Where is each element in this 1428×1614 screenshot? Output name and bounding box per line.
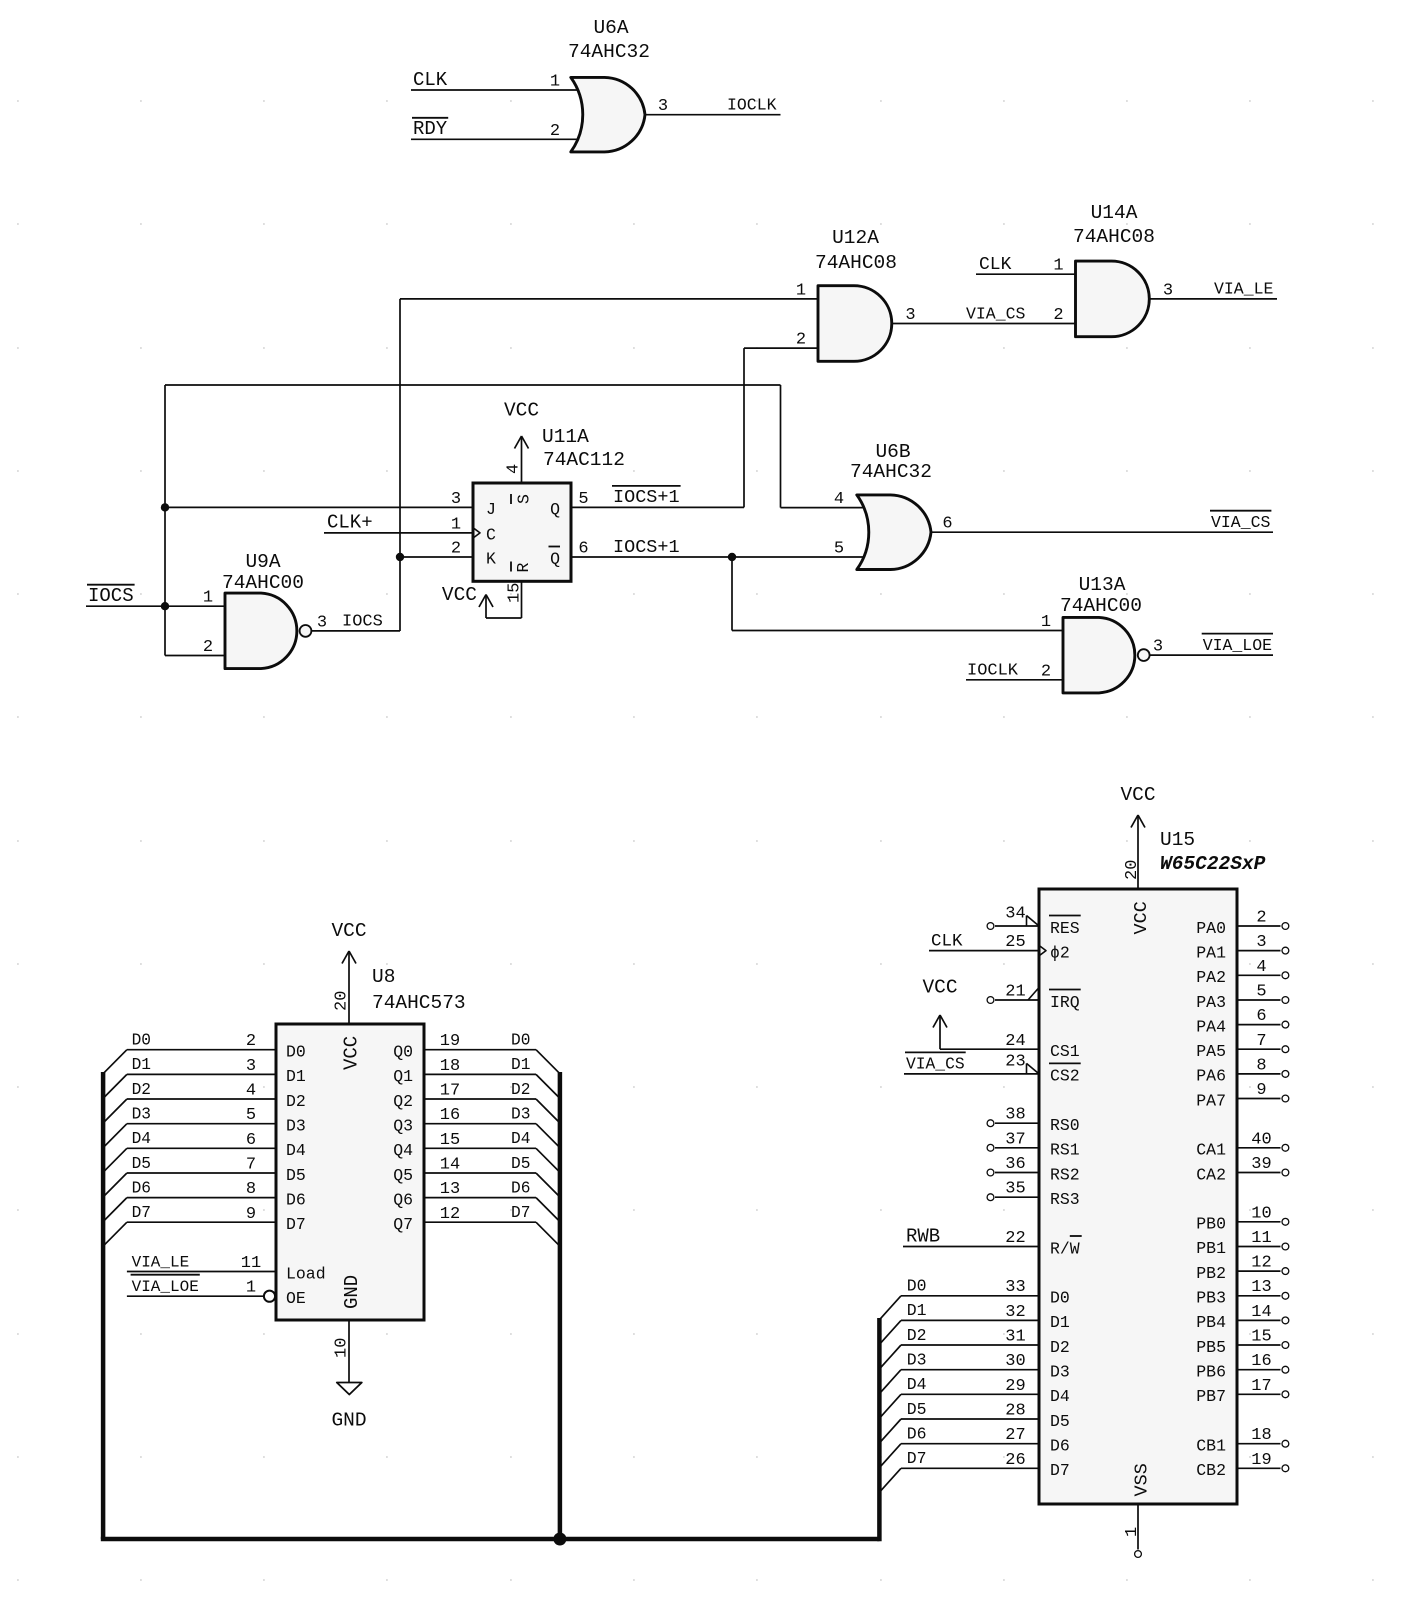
svg-text:CB2: CB2 xyxy=(1196,1461,1226,1480)
svg-text:20: 20 xyxy=(1123,860,1142,880)
svg-text:23: 23 xyxy=(1005,1052,1025,1071)
svg-text:GND: GND xyxy=(331,1410,366,1432)
wire U6A pin 3 to IOCLK xyxy=(646,114,781,116)
svg-text:7: 7 xyxy=(246,1156,256,1175)
svg-text:74AHC08: 74AHC08 xyxy=(815,252,897,274)
pin end circle PB6 xyxy=(1282,1366,1289,1373)
svg-text:22: 22 xyxy=(1005,1229,1025,1248)
wire D4 to U8 pin 6 xyxy=(127,1147,276,1149)
svg-text:CLK: CLK xyxy=(413,69,448,91)
svg-text:18: 18 xyxy=(440,1057,460,1076)
pin end circle CB1 xyxy=(1282,1440,1289,1447)
wire D5 to U8 pin 7 xyxy=(127,1172,276,1174)
svg-text:D0: D0 xyxy=(907,1277,927,1296)
svg-text:PA1: PA1 xyxy=(1196,943,1226,962)
svg-text:IOCS+1: IOCS+1 xyxy=(613,537,680,558)
svg-text:8: 8 xyxy=(1256,1056,1266,1075)
svg-text:PB5: PB5 xyxy=(1196,1338,1226,1357)
svg-text:19: 19 xyxy=(1251,1451,1271,1470)
svg-text:PB2: PB2 xyxy=(1196,1264,1226,1283)
svg-text:PB7: PB7 xyxy=(1196,1387,1226,1406)
svg-text:2: 2 xyxy=(246,1032,256,1051)
svg-text:D7: D7 xyxy=(286,1215,306,1234)
and-gate U14A 74AHC08 xyxy=(1053,202,1173,337)
wire vertical pin2 to Q xyxy=(743,348,745,507)
svg-text:6: 6 xyxy=(942,515,952,534)
wire PA0 stub xyxy=(1237,925,1281,927)
svg-text:74AHC32: 74AHC32 xyxy=(568,41,650,63)
pin end circle PB3 xyxy=(1282,1292,1289,1299)
svg-text:2: 2 xyxy=(550,122,560,141)
svg-text:D0: D0 xyxy=(511,1032,530,1050)
pin end circle PB7 xyxy=(1282,1391,1289,1398)
svg-text:Q6: Q6 xyxy=(393,1190,413,1209)
svg-text:PB3: PB3 xyxy=(1196,1289,1226,1308)
wire CB1 stub xyxy=(1237,1443,1281,1445)
wire U12A pin 2 stub xyxy=(744,347,818,349)
svg-text:12: 12 xyxy=(440,1205,460,1224)
svg-text:VCC: VCC xyxy=(442,584,477,606)
svg-text:6: 6 xyxy=(246,1131,256,1150)
pin end circle 36 xyxy=(987,1169,994,1176)
svg-text:IOCLK: IOCLK xyxy=(727,96,777,115)
wire U12A pin 1 net xyxy=(400,298,818,300)
bus entry D5 xyxy=(879,1419,901,1443)
bus entry D1 right xyxy=(536,1074,560,1098)
svg-text:74AC112: 74AC112 xyxy=(543,449,625,471)
svg-text:CA1: CA1 xyxy=(1196,1141,1226,1160)
power GND at U8 pin 10 xyxy=(331,1320,366,1432)
pin end circle PB4 xyxy=(1282,1317,1289,1324)
pin end circle PA2 xyxy=(1282,972,1289,979)
svg-text:5: 5 xyxy=(1256,983,1266,1002)
svg-text:VIA_LE: VIA_LE xyxy=(132,1253,190,1271)
svg-text:18: 18 xyxy=(1251,1426,1271,1445)
svg-text:RS3: RS3 xyxy=(1050,1190,1080,1209)
svg-text:3: 3 xyxy=(1153,638,1163,657)
power VCC at U15 pin 20 xyxy=(1120,784,1155,889)
wire J pin net xyxy=(165,506,473,508)
wire IOCS-bar vertical trunk xyxy=(164,385,166,656)
power VCC at U8 pin 20 xyxy=(331,920,366,1024)
svg-text:35: 35 xyxy=(1005,1180,1025,1199)
svg-text:RWB: RWB xyxy=(906,1225,940,1247)
svg-text:D2: D2 xyxy=(511,1081,530,1099)
wire PB3 stub xyxy=(1237,1295,1281,1297)
svg-text:3: 3 xyxy=(658,97,668,116)
svg-text:11: 11 xyxy=(241,1254,261,1273)
svg-text:U9A: U9A xyxy=(245,551,280,573)
svg-text:D4: D4 xyxy=(1050,1387,1070,1406)
svg-text:PB4: PB4 xyxy=(1196,1313,1226,1332)
junction IOCS-bar xyxy=(161,602,169,610)
svg-text:3: 3 xyxy=(1256,933,1266,952)
wire PB1 stub xyxy=(1237,1246,1281,1248)
wire PA4 stub xyxy=(1237,1024,1281,1026)
wire D0 to pin 33 xyxy=(901,1295,1039,1297)
wire D5 to pin 28 xyxy=(901,1418,1039,1420)
svg-text:D5: D5 xyxy=(132,1155,151,1173)
wire PB6 stub xyxy=(1237,1369,1281,1371)
svg-text:VIA_CS: VIA_CS xyxy=(1211,513,1271,532)
wire to U13A pin 1 xyxy=(732,630,1063,632)
bus junction xyxy=(553,1533,566,1546)
svg-text:4: 4 xyxy=(834,490,844,509)
wire U6B pin 6 to VIA_CS-bar xyxy=(932,531,1274,533)
svg-text:U11A: U11A xyxy=(542,426,589,448)
wire PB5 stub xyxy=(1237,1344,1281,1346)
bus entry D0 right xyxy=(536,1050,560,1074)
svg-text:15: 15 xyxy=(440,1131,460,1150)
junction on K line xyxy=(396,553,404,561)
svg-text:K: K xyxy=(486,550,496,569)
wire D3 to pin 30 xyxy=(901,1369,1039,1371)
wire D0 to U8 pin 2 xyxy=(127,1049,276,1051)
power VCC at U11A pin 4 xyxy=(504,400,539,484)
svg-text:U6A: U6A xyxy=(593,17,628,39)
svg-text:PB1: PB1 xyxy=(1196,1239,1226,1258)
svg-text:VIA_LE: VIA_LE xyxy=(1214,280,1274,299)
svg-text:PA5: PA5 xyxy=(1196,1042,1226,1061)
svg-text:Q: Q xyxy=(550,550,560,569)
svg-text:VIA_CS: VIA_CS xyxy=(966,304,1026,323)
svg-text:D5: D5 xyxy=(907,1400,927,1419)
svg-text:74AHC00: 74AHC00 xyxy=(1060,595,1142,617)
svg-text:D7: D7 xyxy=(511,1204,530,1222)
pin end circle PA0 xyxy=(1282,923,1289,930)
svg-text:14: 14 xyxy=(1251,1303,1271,1322)
wire PA3 stub xyxy=(1237,999,1281,1001)
wire RS3 stub xyxy=(995,1196,1039,1198)
wire vertical branch to U6B pin 4 xyxy=(780,385,782,508)
svg-text:GND: GND xyxy=(341,1275,363,1309)
pin end circle PB5 xyxy=(1282,1342,1289,1349)
svg-text:PA7: PA7 xyxy=(1196,1091,1226,1110)
input-low wedge RES xyxy=(1026,916,1028,927)
svg-text:R/W: R/W xyxy=(1050,1239,1080,1258)
or-gate U6B 74AHC32 xyxy=(834,441,953,570)
svg-text:74AHC08: 74AHC08 xyxy=(1073,226,1155,248)
svg-text:D2: D2 xyxy=(1050,1338,1070,1357)
wire PB7 stub xyxy=(1237,1393,1281,1395)
wire horizontal to U6B branch xyxy=(165,384,781,386)
svg-text:IOCS+1: IOCS+1 xyxy=(613,487,680,508)
wire D6 to pin 27 xyxy=(901,1443,1039,1445)
bus entry D5 left xyxy=(103,1173,127,1197)
wire VIA_LE to U8 pin 11 xyxy=(127,1271,276,1273)
wire RWB to pin 22 xyxy=(903,1246,1039,1248)
junction on J line xyxy=(161,503,169,511)
svg-text:CA2: CA2 xyxy=(1196,1165,1226,1184)
nand-gate U9A 74AHC00 xyxy=(203,551,327,669)
svg-text:19: 19 xyxy=(440,1032,460,1051)
wire CA2 stub xyxy=(1237,1172,1281,1174)
svg-text:2: 2 xyxy=(796,331,806,350)
svg-text:D2: D2 xyxy=(286,1092,306,1111)
wire to U9A pin 1 xyxy=(165,605,225,607)
svg-text:1: 1 xyxy=(203,589,213,608)
bus entry D3 right xyxy=(536,1124,560,1148)
svg-text:S: S xyxy=(515,494,534,504)
bus entry D3 xyxy=(879,1370,901,1394)
svg-text:VIA_LOE: VIA_LOE xyxy=(1203,636,1272,655)
pin end circle 37 xyxy=(987,1144,994,1151)
svg-text:D3: D3 xyxy=(1050,1363,1070,1382)
svg-text:3: 3 xyxy=(1163,281,1173,300)
svg-text:12: 12 xyxy=(1251,1254,1271,1273)
svg-text:4: 4 xyxy=(1256,958,1266,977)
svg-text:D5: D5 xyxy=(511,1155,530,1173)
svg-text:D7: D7 xyxy=(907,1449,927,1468)
svg-text:40: 40 xyxy=(1251,1130,1271,1149)
svg-text:74AHC573: 74AHC573 xyxy=(372,992,466,1014)
svg-text:9: 9 xyxy=(1256,1081,1266,1100)
svg-text:D6: D6 xyxy=(511,1179,530,1197)
svg-text:3: 3 xyxy=(246,1057,256,1076)
bus entry D2 right xyxy=(536,1099,560,1123)
svg-text:38: 38 xyxy=(1005,1106,1025,1125)
pin end circle PA3 xyxy=(1282,997,1289,1004)
svg-text:11: 11 xyxy=(1251,1229,1271,1248)
svg-text:D6: D6 xyxy=(907,1425,927,1444)
svg-text:D1: D1 xyxy=(132,1056,151,1074)
wire pin 34 stub xyxy=(995,925,1039,927)
svg-text:VIA_CS: VIA_CS xyxy=(906,1055,965,1074)
wire PA5 stub xyxy=(1237,1048,1281,1050)
svg-text:8: 8 xyxy=(246,1180,256,1199)
svg-text:7: 7 xyxy=(1256,1032,1266,1051)
svg-text:25: 25 xyxy=(1005,933,1025,952)
wire D4 to pin 29 xyxy=(901,1393,1039,1395)
svg-text:1: 1 xyxy=(796,281,806,300)
wire D3 to U8 pin 5 xyxy=(127,1123,276,1125)
wire CLK to U6A pin 1 xyxy=(411,89,580,91)
svg-text:32: 32 xyxy=(1005,1303,1025,1322)
pin end circle PA1 xyxy=(1282,947,1289,954)
output bubble xyxy=(1138,649,1150,661)
bus entry D4 right xyxy=(536,1148,560,1172)
svg-text:21: 21 xyxy=(1005,983,1025,1002)
svg-text:2: 2 xyxy=(1041,662,1051,681)
bus entry D4 left xyxy=(103,1148,127,1172)
or-gate U6A 74AHC32 xyxy=(550,17,668,152)
svg-text:Load: Load xyxy=(286,1264,326,1283)
svg-text:3: 3 xyxy=(451,490,461,509)
pin end circle PA7 xyxy=(1282,1095,1289,1102)
svg-text:D4: D4 xyxy=(907,1375,927,1394)
pin end circle PA6 xyxy=(1282,1071,1289,1078)
wire U13A pin 3 to VIA_LOE xyxy=(1150,654,1274,656)
pin end circle CA2 xyxy=(1282,1169,1289,1176)
svg-text:VCC: VCC xyxy=(504,400,539,422)
svg-text:5: 5 xyxy=(834,539,844,558)
svg-text:15: 15 xyxy=(1251,1328,1271,1347)
svg-text:D2: D2 xyxy=(907,1326,927,1345)
wire Q to U12A pin 2 branch xyxy=(571,506,744,508)
wire vertical to U13A pin 1 xyxy=(731,557,733,631)
wire to U9A pin 2 xyxy=(165,655,225,657)
svg-text:27: 27 xyxy=(1005,1426,1025,1445)
svg-text:1: 1 xyxy=(1053,257,1063,276)
svg-text:10: 10 xyxy=(1251,1204,1271,1223)
svg-text:D1: D1 xyxy=(907,1301,927,1320)
wire VIA_CS U12A.3 to U14A.2 xyxy=(892,323,1076,325)
wire PA6 stub xyxy=(1237,1073,1281,1075)
wire to U6B pin 4 xyxy=(781,507,867,509)
bus entry D7 left xyxy=(103,1222,127,1246)
wire D7 to pin 26 xyxy=(901,1467,1039,1469)
svg-text:1: 1 xyxy=(1123,1527,1142,1537)
and-gate U12A 74AHC08 xyxy=(796,227,916,361)
svg-text:5: 5 xyxy=(578,490,588,509)
bus entry D0 xyxy=(879,1296,901,1320)
latch U8 74AHC573 xyxy=(241,966,466,1358)
svg-text:D1: D1 xyxy=(511,1056,530,1074)
svg-text:CB1: CB1 xyxy=(1196,1437,1226,1456)
bus entry D2 xyxy=(879,1345,901,1369)
svg-text:D4: D4 xyxy=(511,1130,530,1148)
svg-text:D5: D5 xyxy=(1050,1412,1070,1431)
pin end circle CA1 xyxy=(1282,1144,1289,1151)
wire PA7 stub xyxy=(1237,1098,1281,1100)
svg-text:33: 33 xyxy=(1005,1278,1025,1297)
bus U15 vertical xyxy=(877,1318,882,1541)
svg-text:17: 17 xyxy=(1251,1377,1271,1396)
svg-text:PA4: PA4 xyxy=(1196,1017,1226,1036)
svg-text:3: 3 xyxy=(905,306,915,325)
pin end circle PB1 xyxy=(1282,1243,1289,1250)
wire CA1 stub xyxy=(1237,1147,1281,1149)
wire K pin net xyxy=(400,556,473,558)
svg-text:Q3: Q3 xyxy=(393,1117,413,1136)
svg-text:RS2: RS2 xyxy=(1050,1165,1080,1184)
wire VIA_CS to pin 23 xyxy=(904,1073,1039,1075)
wire U8 pin 15 to D4 xyxy=(424,1147,536,1149)
svg-text:1: 1 xyxy=(246,1279,256,1298)
svg-text:D4: D4 xyxy=(286,1141,306,1160)
svg-text:D7: D7 xyxy=(132,1204,151,1222)
clock wedge xyxy=(473,528,480,538)
svg-text:PB0: PB0 xyxy=(1196,1215,1226,1234)
svg-text:2: 2 xyxy=(1256,909,1266,928)
svg-text:W65C22SxP: W65C22SxP xyxy=(1160,853,1266,875)
wire IOCLK to U13A pin 2 xyxy=(966,679,1063,681)
wire D6 to U8 pin 8 xyxy=(127,1197,276,1199)
svg-text:37: 37 xyxy=(1005,1130,1025,1149)
svg-text:U6B: U6B xyxy=(875,441,910,463)
svg-text:D7: D7 xyxy=(1050,1461,1070,1480)
bus entry D6 right xyxy=(536,1198,560,1222)
svg-text:Q5: Q5 xyxy=(393,1166,413,1185)
wire pin 21 stub xyxy=(995,999,1039,1001)
pin end circle 35 xyxy=(987,1194,994,1201)
svg-text:1: 1 xyxy=(451,515,461,534)
svg-text:4: 4 xyxy=(246,1082,256,1101)
svg-text:RS1: RS1 xyxy=(1050,1141,1080,1160)
svg-text:5: 5 xyxy=(246,1106,256,1125)
bus entry D1 xyxy=(879,1320,901,1344)
open-collector slash IRQ xyxy=(1028,988,1039,1001)
svg-text:CS2: CS2 xyxy=(1050,1067,1080,1086)
svg-text:PA2: PA2 xyxy=(1196,968,1226,987)
svg-text:IRQ: IRQ xyxy=(1050,993,1080,1012)
svg-text:C: C xyxy=(486,525,496,544)
svg-text:36: 36 xyxy=(1005,1155,1025,1174)
svg-text:74AHC32: 74AHC32 xyxy=(850,461,932,483)
wire RS2 stub xyxy=(995,1172,1039,1174)
svg-text:U15: U15 xyxy=(1160,829,1195,851)
svg-text:D1: D1 xyxy=(1050,1313,1070,1332)
wire U8 pin 18 to D1 xyxy=(424,1073,536,1075)
svg-text:VCC: VCC xyxy=(922,977,957,999)
power VCC at U11A pin 15 xyxy=(442,581,522,618)
wire U8 pin 19 to D0 xyxy=(424,1049,536,1051)
svg-text:1: 1 xyxy=(550,73,560,92)
pin end circle 34 xyxy=(987,923,994,930)
svg-text:CLK: CLK xyxy=(979,255,1012,275)
wire U8 pin 17 to D2 xyxy=(424,1098,536,1100)
junction Q-bar to U13A branch xyxy=(728,553,736,561)
svg-text:ϕ2: ϕ2 xyxy=(1050,943,1070,962)
bus entry D5 right xyxy=(536,1173,560,1197)
clock wedge phi2 xyxy=(1039,945,1046,956)
wire VSS pin 1 xyxy=(1137,1504,1139,1550)
svg-text:D0: D0 xyxy=(286,1043,306,1062)
svg-text:D2: D2 xyxy=(132,1081,151,1099)
svg-text:U12A: U12A xyxy=(832,227,879,249)
wire CLK+ to C pin xyxy=(324,532,473,534)
svg-text:PB6: PB6 xyxy=(1196,1363,1226,1382)
svg-text:D3: D3 xyxy=(132,1106,151,1124)
svg-text:IOCS: IOCS xyxy=(88,585,134,607)
svg-text:1: 1 xyxy=(1041,613,1051,632)
svg-text:31: 31 xyxy=(1005,1328,1025,1347)
svg-text:VCC: VCC xyxy=(1131,901,1152,934)
wire D1 to pin 32 xyxy=(901,1319,1039,1321)
wire Q-bar net xyxy=(571,556,866,558)
power VCC at U15 CS1 xyxy=(922,977,1039,1050)
bus entry D1 left xyxy=(103,1074,127,1098)
svg-text:IOCLK: IOCLK xyxy=(967,662,1019,681)
svg-text:U13A: U13A xyxy=(1079,574,1126,596)
svg-text:VCC: VCC xyxy=(331,920,366,942)
wire D2 to pin 31 xyxy=(901,1344,1039,1346)
wire CLK to U14A pin 1 xyxy=(976,273,1076,275)
svg-text:D3: D3 xyxy=(286,1117,306,1136)
svg-text:Q: Q xyxy=(550,500,560,519)
bus U8 right vertical xyxy=(558,1072,563,1539)
pin end circle CB2 xyxy=(1282,1465,1289,1472)
bus bottom horizontal xyxy=(101,1537,880,1542)
svg-text:OE: OE xyxy=(286,1289,306,1308)
svg-text:D0: D0 xyxy=(1050,1289,1070,1308)
svg-text:26: 26 xyxy=(1005,1451,1025,1470)
svg-text:J: J xyxy=(486,500,496,519)
svg-text:IOCS: IOCS xyxy=(342,613,383,632)
svg-text:Q4: Q4 xyxy=(393,1141,413,1160)
svg-text:16: 16 xyxy=(440,1106,460,1125)
wire U14A pin 3 to VIA_LE xyxy=(1149,298,1277,300)
wire PA1 stub xyxy=(1237,950,1281,952)
svg-text:RES: RES xyxy=(1050,919,1080,938)
svg-text:CLK+: CLK+ xyxy=(327,512,373,534)
output bubble xyxy=(300,625,312,637)
svg-text:VIA_LOE: VIA_LOE xyxy=(132,1278,199,1296)
svg-text:13: 13 xyxy=(440,1180,460,1199)
pin end circle PB0 xyxy=(1282,1218,1289,1225)
pin end circle VSS xyxy=(1135,1551,1142,1558)
svg-text:39: 39 xyxy=(1251,1155,1271,1174)
